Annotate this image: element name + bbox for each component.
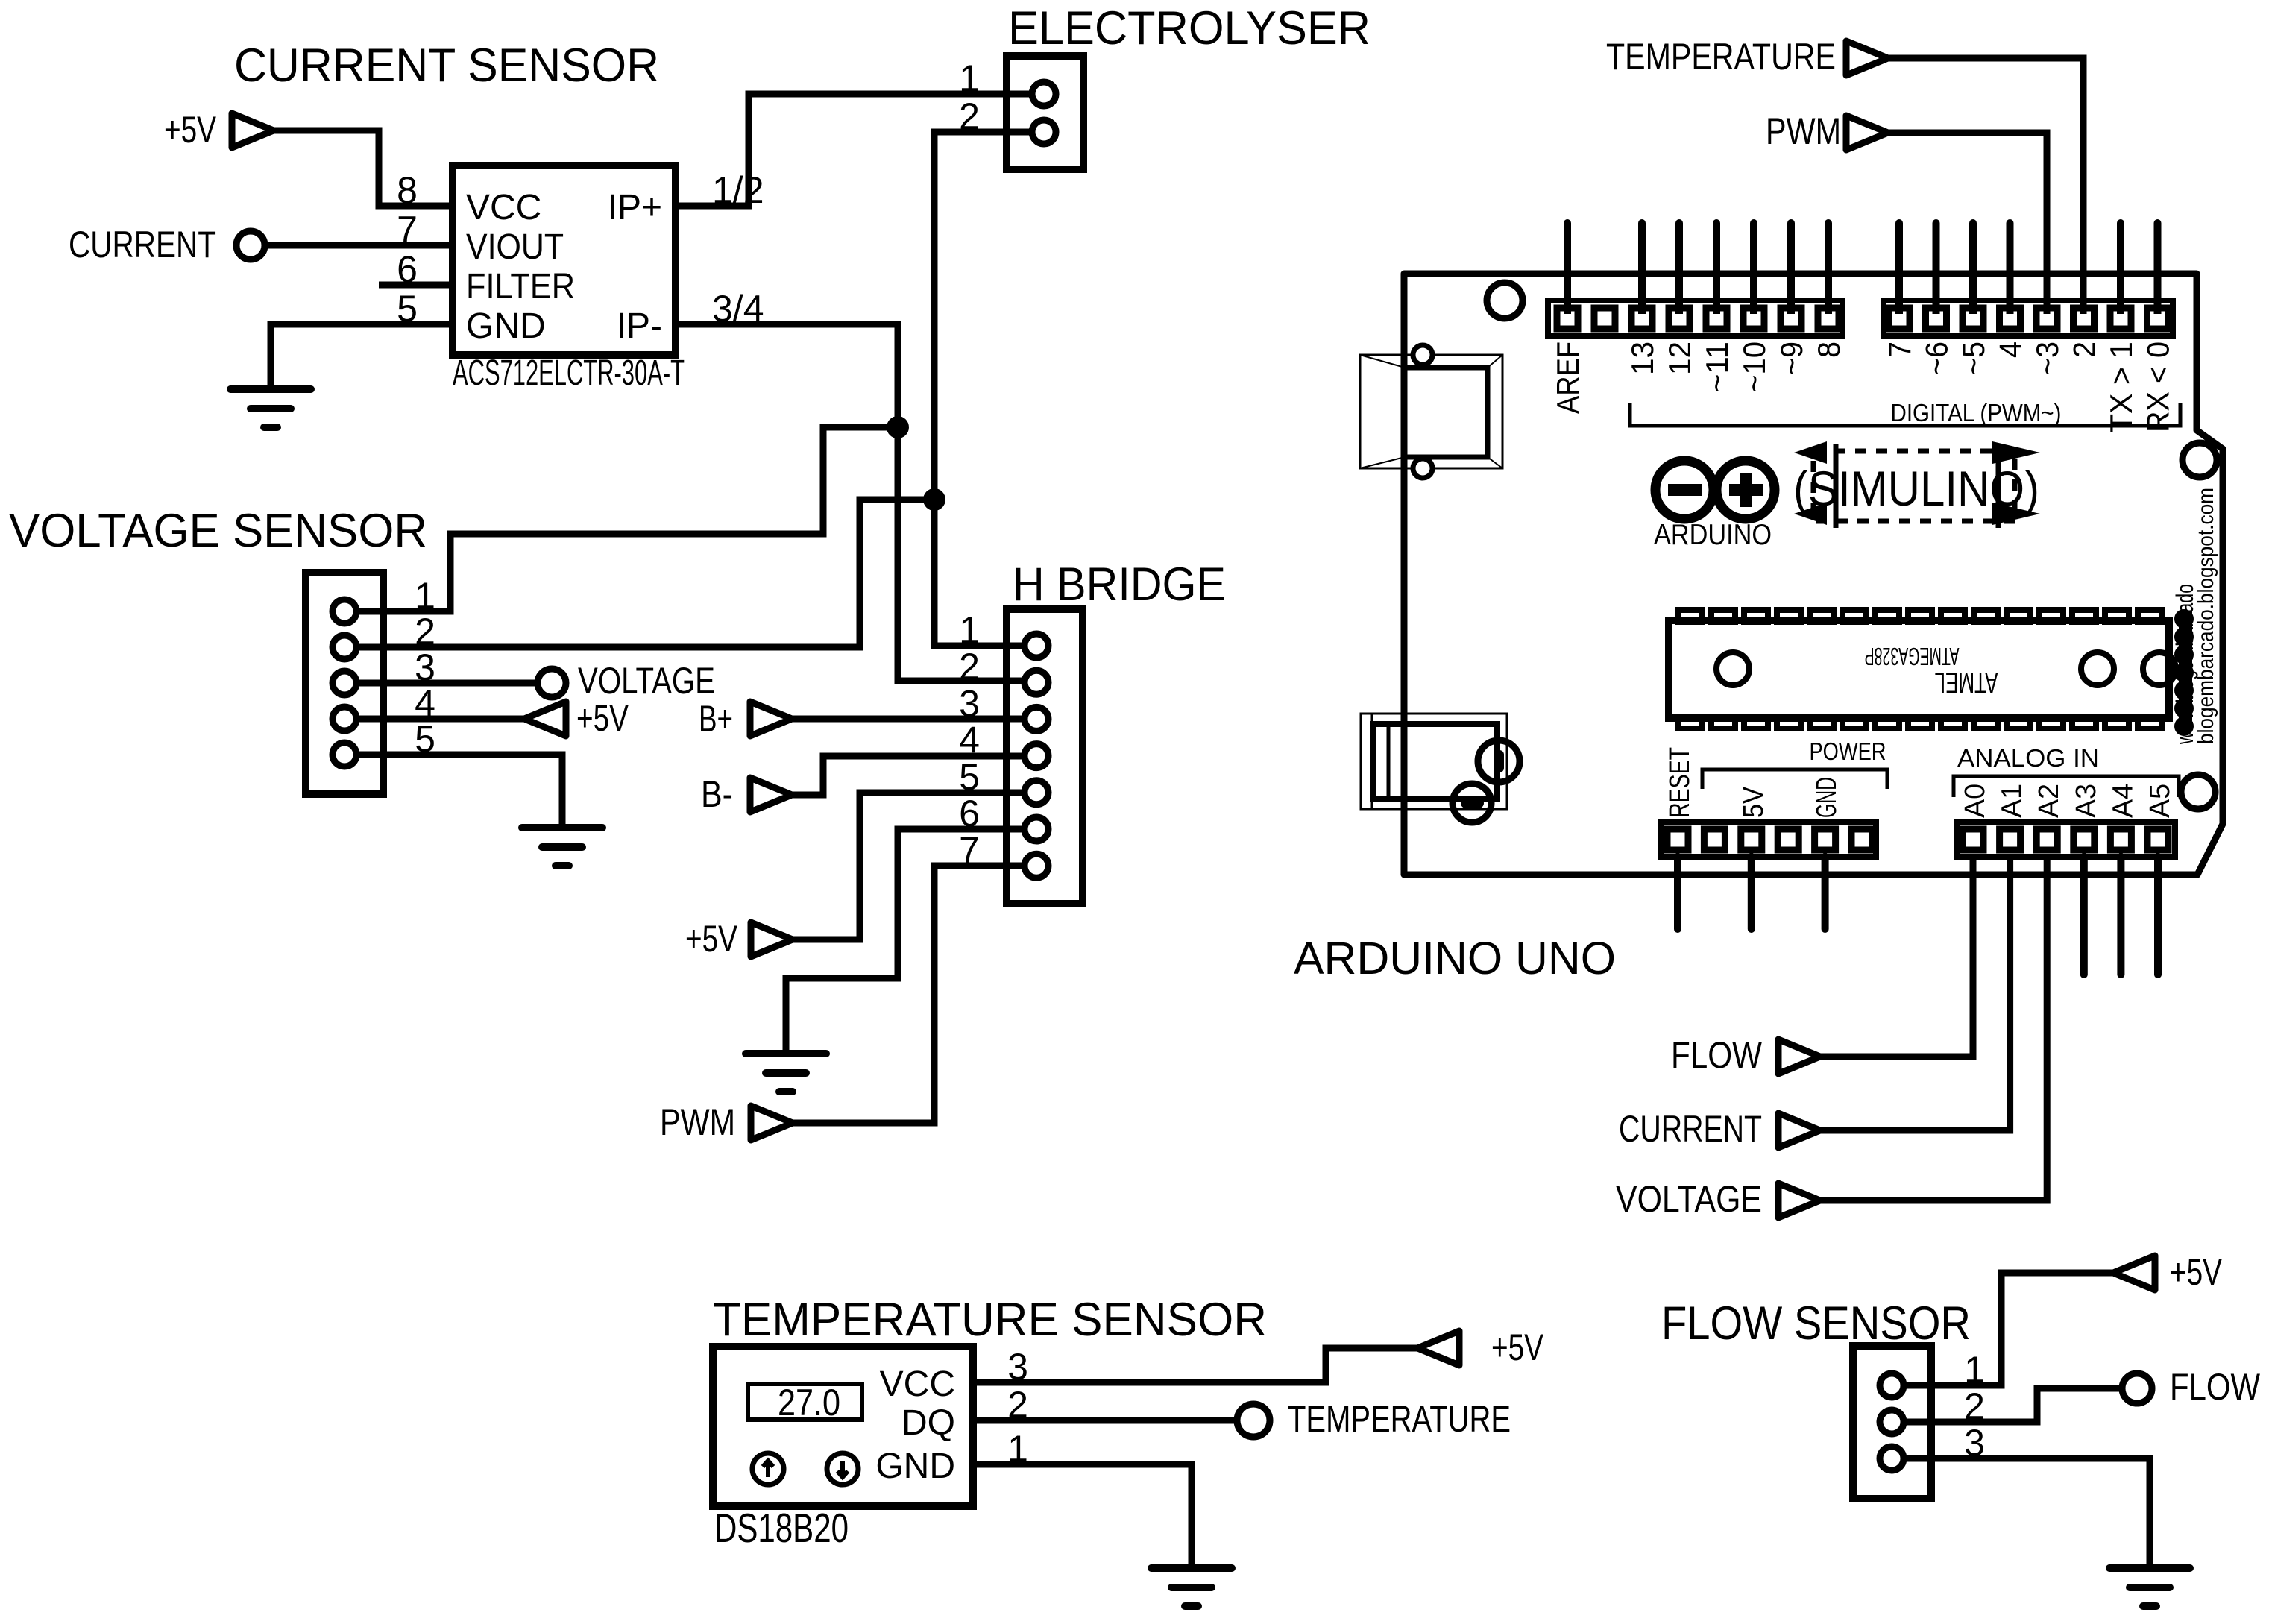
- svg-text:RX < 0: RX < 0: [2141, 342, 2176, 432]
- wire U1 IP- to H bridge pin 2: [676, 324, 1036, 681]
- svg-text:FILTER: FILTER: [466, 267, 575, 306]
- svg-text:5: 5: [959, 756, 980, 798]
- svg-text:1: 1: [959, 609, 980, 651]
- svg-text:ACS712ELCTR-30A-T: ACS712ELCTR-30A-T: [453, 353, 685, 393]
- wire stub U1 pin 6 FILTER: [379, 282, 453, 289]
- svg-text:27.0: 27.0: [778, 1382, 840, 1423]
- header pins below A3 A4 A5: [2080, 857, 2088, 975]
- svg-text:TEMPERATURE: TEMPERATURE: [1288, 1398, 1511, 1440]
- svg-text:+5V: +5V: [576, 697, 629, 739]
- svg-text:5: 5: [415, 718, 435, 760]
- analog header A0-A5: [1957, 822, 2175, 857]
- svg-text:TEMPERATURE: TEMPERATURE: [1606, 36, 1836, 78]
- svg-text:B+: B+: [699, 698, 733, 740]
- svg-text:A3: A3: [2071, 784, 2102, 818]
- USB connector: [1360, 355, 1502, 468]
- power +5V arrow (current sensor): [232, 113, 274, 148]
- svg-text:1: 1: [1007, 1428, 1028, 1470]
- connector H BRIDGE: [1007, 609, 1083, 904]
- svg-text:DS18B20: DS18B20: [714, 1505, 849, 1551]
- svg-text:3: 3: [959, 682, 980, 724]
- svg-text:~6: ~6: [1919, 342, 1954, 375]
- svg-text:FLOW: FLOW: [1671, 1034, 1763, 1076]
- power +5V arrow (H bridge): [751, 922, 793, 957]
- wire +5V to U1 pin 8 VCC: [274, 130, 453, 206]
- svg-text:FLOW: FLOW: [2170, 1366, 2261, 1408]
- svg-text:ELECTROLYSER: ELECTROLYSER: [1008, 2, 1370, 54]
- wire flow sensor pin 2 to FLOW terminal: [1892, 1388, 2137, 1422]
- wire voltage sensor pin 1 to junction: [344, 427, 898, 611]
- svg-text:POWER: POWER: [1810, 737, 1886, 765]
- bracket POWER: [1702, 769, 1887, 789]
- svg-text:6: 6: [397, 248, 418, 290]
- svg-text:ARDUINO UNO: ARDUINO UNO: [1294, 933, 1616, 983]
- mounting hole top-right: [2183, 443, 2217, 477]
- svg-text:7: 7: [959, 829, 980, 871]
- svg-text:2: 2: [2067, 342, 2102, 358]
- svg-text:2: 2: [1007, 1384, 1028, 1426]
- svg-text:GND: GND: [875, 1447, 955, 1486]
- chip U1 ACS712ELCTR-30A-T: [453, 166, 676, 355]
- power jack: [1361, 714, 1507, 809]
- svg-text:ARDUINO: ARDUINO: [1654, 519, 1772, 551]
- power B+ arrow: [750, 702, 792, 736]
- svg-text:~3: ~3: [2030, 342, 2065, 375]
- svg-text:5V: 5V: [1738, 786, 1769, 818]
- signal arrow CURRENT to Arduino pin A1: [1778, 1113, 1820, 1148]
- svg-text:4: 4: [1993, 342, 2028, 358]
- svg-text:VOLTAGE: VOLTAGE: [1616, 1178, 1762, 1220]
- ground (current sensor): [230, 385, 311, 393]
- wire TEMPERATURE to Arduino pin 2: [1888, 58, 2083, 318]
- ground (temperature sensor): [1151, 1564, 1232, 1572]
- svg-text:12: 12: [1662, 342, 1697, 375]
- svg-text:+5V: +5V: [164, 109, 217, 151]
- svg-text:IP-: IP-: [617, 306, 662, 346]
- svg-text:3: 3: [1964, 1422, 1985, 1464]
- wire CURRENT to U1 pin 7 VIOUT: [265, 242, 453, 249]
- terminal VOLTAGE: [538, 669, 566, 697]
- svg-text:RESET: RESET: [1664, 747, 1696, 818]
- svg-text:A4: A4: [2107, 784, 2139, 818]
- wire U1 pin 5 GND to ground: [271, 324, 453, 389]
- svg-text:CURRENT: CURRENT: [69, 224, 216, 265]
- wire flow sensor pin 1 to +5V: [1892, 1273, 2113, 1385]
- svg-text:+5V: +5V: [2170, 1251, 2223, 1293]
- wire CURRENT to Arduino pin A1: [1820, 857, 2010, 1130]
- svg-text:VIOUT: VIOUT: [466, 227, 564, 267]
- ground (H bridge): [746, 1050, 826, 1057]
- mounting hole top-left: [1487, 283, 1523, 318]
- wire PWM to H bridge pin 7: [793, 866, 1036, 1123]
- wire DS18B20 DQ to TEMPERATURE terminal: [973, 1417, 1253, 1424]
- wire PWM to Arduino pin ~3: [1888, 133, 2047, 318]
- signal arrow TEMPERATURE to Arduino pin 2: [1846, 41, 1888, 75]
- connector FLOW SENSOR: [1853, 1346, 1931, 1499]
- digital header right (7..0): [1884, 300, 2173, 336]
- svg-text:5: 5: [397, 288, 418, 330]
- svg-text:A5: A5: [2144, 784, 2176, 818]
- svg-text:FLOW SENSOR: FLOW SENSOR: [1661, 1297, 1971, 1350]
- svg-text:GND: GND: [466, 306, 546, 346]
- junction electrolyser pin 2 with voltage sensor pin 2: [923, 488, 945, 511]
- digital header left (AREF,13..8): [1548, 300, 1842, 336]
- power header RESET 5V GND: [1661, 822, 1876, 857]
- ground (voltage sensor): [522, 824, 602, 831]
- connector ELECTROLYSER: [1007, 56, 1083, 169]
- svg-text:PWM: PWM: [1766, 110, 1841, 152]
- wire B- to H bridge pin 4: [792, 756, 1036, 795]
- svg-text:VCC: VCC: [880, 1365, 955, 1404]
- wire flow sensor pin 3 to ground: [1892, 1458, 2150, 1568]
- svg-text:7: 7: [1882, 342, 1917, 358]
- svg-text:8: 8: [397, 169, 418, 211]
- svg-text:+5V: +5V: [1491, 1326, 1544, 1368]
- wire VOLTAGE to Arduino pin A2: [1820, 857, 2047, 1200]
- svg-text:PWM: PWM: [660, 1101, 735, 1143]
- svg-text:1: 1: [959, 57, 980, 99]
- header pins digital left: [1564, 223, 1571, 318]
- power +5V arrow (voltage sensor): [524, 702, 566, 736]
- svg-text:~10: ~10: [1737, 342, 1772, 392]
- signal arrow FLOW to Arduino pin A0: [1778, 1039, 1820, 1074]
- terminal CURRENT: [236, 231, 265, 259]
- svg-text:DQ: DQ: [901, 1403, 955, 1443]
- terminal TEMPERATURE: [1237, 1404, 1270, 1437]
- Arduino logo: [1655, 461, 1713, 519]
- wire +5V to H bridge pin 5: [793, 793, 1036, 940]
- svg-text:CURRENT SENSOR: CURRENT SENSOR: [234, 40, 659, 92]
- wire FLOW to Arduino pin A0: [1820, 857, 1973, 1057]
- wire voltage sensor pin 2 to junction: [344, 500, 934, 647]
- svg-text:1: 1: [1964, 1349, 1985, 1391]
- svg-text:~11: ~11: [1699, 342, 1734, 392]
- svg-text:~5: ~5: [1956, 342, 1991, 375]
- header pins below RESET 5V GND: [1674, 857, 1681, 929]
- svg-text:TX > 1: TX > 1: [2103, 342, 2139, 432]
- svg-text:A1: A1: [1997, 784, 2028, 818]
- wire U1 IP+ to electrolyser pin 1: [676, 94, 1044, 206]
- chip ATMEGA328P: [1669, 620, 2169, 718]
- svg-text:2: 2: [959, 95, 980, 137]
- svg-text:(SIMULINO): (SIMULINO): [1793, 461, 2039, 516]
- sensor DS18B20: [713, 1347, 973, 1506]
- svg-text:ANALOG IN: ANALOG IN: [1957, 744, 2099, 772]
- svg-text:A2: A2: [2033, 784, 2065, 818]
- header pins digital right (short): [1895, 223, 1903, 318]
- signal arrow VOLTAGE to Arduino pin A2: [1778, 1183, 1820, 1218]
- wire voltage sensor pin 4 to +5V: [344, 716, 524, 723]
- svg-text:H BRIDGE: H BRIDGE: [1013, 558, 1226, 611]
- svg-text:6: 6: [959, 793, 980, 834]
- wire H bridge pin 6 to ground: [786, 829, 1036, 1054]
- svg-text:+5V: +5V: [685, 918, 738, 960]
- connector VOLTAGE SENSOR: [306, 573, 383, 794]
- svg-text:IP+: IP+: [608, 188, 662, 227]
- power PWM arrow: [751, 1106, 793, 1140]
- wire B+ to H bridge pin 3: [792, 716, 1036, 723]
- Arduino Uno board outline: [1404, 274, 2223, 875]
- svg-text:B-: B-: [701, 773, 733, 815]
- svg-text:CURRENT: CURRENT: [1619, 1108, 1762, 1150]
- svg-text:VCC: VCC: [466, 188, 541, 227]
- power B- arrow: [750, 778, 792, 812]
- svg-text:4: 4: [959, 720, 980, 761]
- signal arrow PWM to Arduino pin ~3: [1846, 116, 1888, 150]
- svg-text:1/2: 1/2: [712, 169, 764, 211]
- svg-text:3: 3: [1007, 1346, 1028, 1388]
- wire DS18B20 VCC to +5V: [973, 1348, 1417, 1382]
- svg-text:3/4: 3/4: [712, 288, 764, 330]
- bracket ANALOG IN: [1954, 776, 2179, 797]
- junction IP- with voltage sensor pin 1: [887, 416, 909, 438]
- power +5V arrow (temperature sensor): [1417, 1331, 1459, 1365]
- mounting hole bottom-right: [2181, 775, 2215, 809]
- svg-text:VOLTAGE: VOLTAGE: [578, 660, 715, 702]
- svg-text:GND: GND: [1811, 777, 1842, 818]
- svg-text:13: 13: [1625, 342, 1660, 375]
- wire DS18B20 GND to ground: [973, 1464, 1192, 1568]
- svg-text:ATMEL: ATMEL: [1935, 666, 1998, 699]
- wire electrolyser pin 2 to H bridge pin 1: [934, 132, 1044, 646]
- svg-text:DIGITAL (PWM~): DIGITAL (PWM~): [1891, 399, 2062, 427]
- svg-text:7: 7: [397, 209, 418, 251]
- wire voltage sensor pin 3 to VOLTAGE terminal: [344, 680, 552, 687]
- svg-text:A0: A0: [1960, 784, 1991, 818]
- power +5V arrow (flow sensor): [2113, 1256, 2155, 1290]
- terminal FLOW: [2122, 1373, 2152, 1403]
- SIMULINO logo: [1813, 451, 2015, 521]
- svg-text:AREF: AREF: [1550, 342, 1585, 414]
- svg-text:blogembarcado.blogspot.com: blogembarcado.blogspot.com: [2194, 488, 2218, 744]
- ground (flow sensor): [2109, 1564, 2190, 1572]
- bracket DIGITAL: [1630, 403, 2180, 426]
- svg-text:2: 2: [1964, 1385, 1985, 1427]
- svg-text:TEMPERATURE SENSOR: TEMPERATURE SENSOR: [713, 1294, 1267, 1346]
- svg-text:VOLTAGE SENSOR: VOLTAGE SENSOR: [9, 505, 427, 557]
- svg-text:2: 2: [959, 646, 980, 687]
- wire voltage sensor pin 5 to ground: [344, 755, 562, 828]
- svg-text:8: 8: [1811, 342, 1846, 358]
- svg-text:~9: ~9: [1774, 342, 1809, 375]
